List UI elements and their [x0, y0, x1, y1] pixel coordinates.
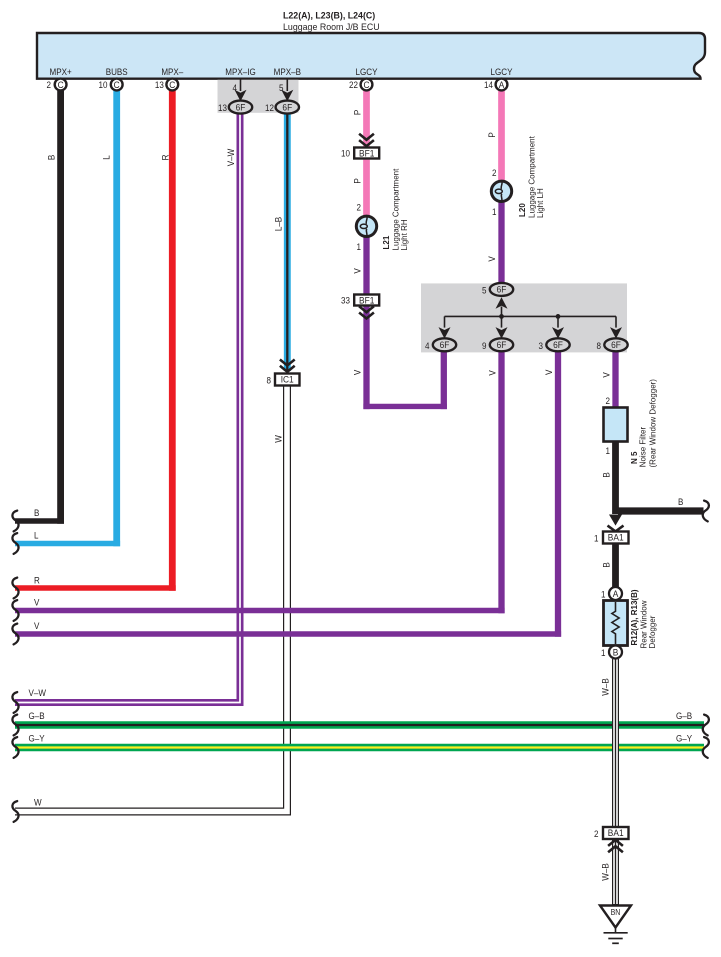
svg-text:Light RH: Light RH — [400, 219, 409, 250]
svg-text:1: 1 — [601, 647, 606, 658]
svg-text:33: 33 — [341, 295, 350, 306]
svg-text:1: 1 — [357, 241, 362, 252]
svg-text:1: 1 — [606, 445, 611, 456]
svg-text:1: 1 — [594, 533, 599, 544]
svg-text:1: 1 — [492, 206, 497, 217]
svg-text:L20: L20 — [518, 203, 527, 217]
svg-text:BF1: BF1 — [359, 295, 374, 306]
svg-text:G–Y: G–Y — [29, 733, 45, 744]
svg-text:B: B — [46, 155, 57, 160]
svg-text:14: 14 — [484, 79, 493, 90]
svg-text:4: 4 — [425, 340, 430, 351]
svg-text:R: R — [34, 575, 40, 586]
svg-text:4: 4 — [233, 82, 238, 93]
svg-text:Noise Filter: Noise Filter — [639, 427, 648, 468]
svg-text:G–B: G–B — [29, 710, 45, 721]
svg-text:13: 13 — [218, 102, 227, 113]
svg-text:BUBS: BUBS — [106, 66, 128, 77]
svg-text:L22(A), L23(B), L24(C): L22(A), L23(B), L24(C) — [283, 10, 375, 20]
svg-text:C: C — [169, 79, 176, 90]
svg-text:B: B — [678, 496, 683, 507]
svg-text:BA1: BA1 — [608, 532, 624, 543]
svg-text:V: V — [352, 370, 363, 375]
svg-text:A: A — [499, 79, 505, 90]
svg-text:Rear Window: Rear Window — [639, 600, 648, 648]
svg-text:L: L — [101, 155, 112, 160]
svg-text:BA1: BA1 — [608, 828, 624, 839]
svg-text:13: 13 — [155, 79, 164, 90]
svg-text:MPX–B: MPX–B — [274, 66, 301, 77]
svg-text:2: 2 — [47, 79, 52, 90]
svg-text:C: C — [363, 79, 370, 90]
svg-text:BF1: BF1 — [359, 148, 374, 159]
svg-text:V: V — [34, 620, 39, 631]
svg-text:R: R — [160, 155, 171, 161]
svg-text:V: V — [543, 370, 554, 375]
svg-text:3: 3 — [539, 340, 544, 351]
svg-text:8: 8 — [597, 340, 602, 351]
svg-text:Luggage Room J/B ECU: Luggage Room J/B ECU — [283, 22, 380, 32]
svg-text:5: 5 — [482, 285, 487, 296]
svg-text:L: L — [34, 530, 39, 541]
svg-text:V: V — [486, 256, 497, 261]
svg-text:10: 10 — [341, 148, 350, 159]
svg-text:B: B — [34, 507, 39, 518]
svg-text:BN: BN — [611, 908, 621, 918]
svg-text:V: V — [352, 268, 363, 273]
svg-text:W–B: W–B — [600, 678, 611, 696]
svg-text:22: 22 — [349, 79, 358, 90]
svg-text:N 5: N 5 — [630, 451, 639, 464]
svg-text:P: P — [352, 178, 363, 183]
svg-text:C: C — [58, 79, 65, 90]
svg-text:L–B: L–B — [273, 217, 284, 231]
svg-text:W–B: W–B — [600, 863, 611, 881]
svg-text:V: V — [487, 370, 498, 375]
svg-text:G–Y: G–Y — [676, 733, 692, 744]
svg-text:G–B: G–B — [676, 710, 692, 721]
svg-text:2: 2 — [594, 828, 599, 839]
svg-text:LGCY: LGCY — [491, 66, 513, 77]
svg-text:LGCY: LGCY — [356, 66, 378, 77]
svg-text:C: C — [114, 79, 121, 90]
svg-text:P: P — [486, 132, 497, 137]
svg-text:Light LH: Light LH — [536, 188, 545, 218]
svg-text:5: 5 — [279, 82, 284, 93]
svg-text:9: 9 — [482, 340, 487, 351]
svg-text:V: V — [34, 597, 39, 608]
svg-text:8: 8 — [267, 375, 272, 386]
svg-text:V–W: V–W — [225, 148, 236, 166]
svg-text:L21: L21 — [382, 235, 391, 249]
svg-text:Defogger: Defogger — [648, 615, 657, 648]
svg-text:2: 2 — [606, 395, 611, 406]
svg-text:1: 1 — [601, 589, 606, 600]
svg-text:A: A — [613, 588, 619, 599]
svg-text:2: 2 — [357, 202, 362, 213]
svg-text:MPX+: MPX+ — [50, 66, 72, 77]
svg-text:12: 12 — [265, 102, 274, 113]
svg-text:MPX–: MPX– — [161, 66, 183, 77]
svg-text:V: V — [601, 372, 612, 377]
svg-text:10: 10 — [99, 79, 108, 90]
svg-text:B: B — [613, 647, 619, 658]
svg-text:V–W: V–W — [29, 687, 47, 698]
svg-text:P: P — [352, 110, 363, 115]
svg-text:B: B — [601, 562, 612, 567]
svg-text:W: W — [34, 797, 42, 808]
svg-text:B: B — [601, 472, 612, 477]
svg-text:2: 2 — [492, 167, 497, 178]
svg-text:MPX–IG: MPX–IG — [225, 66, 256, 77]
svg-text:(Rear Window Defogger): (Rear Window Defogger) — [648, 379, 657, 468]
svg-text:W: W — [273, 435, 284, 443]
svg-text:R12(A), R13(B): R12(A), R13(B) — [630, 589, 639, 645]
svg-text:IC1: IC1 — [281, 374, 294, 385]
